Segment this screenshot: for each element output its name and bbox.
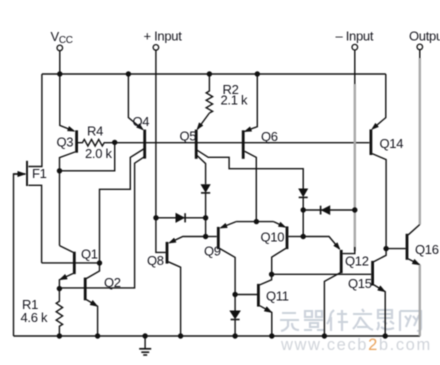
node rail / diode C xyxy=(232,333,237,338)
watermark xyxy=(280,309,432,354)
node Q14 collector / Q15 collector / Q16 base xyxy=(383,246,388,251)
wire Q16 emitter gray xyxy=(419,265,421,336)
transistor Q8 xyxy=(167,237,206,337)
terminal VCC xyxy=(57,45,63,51)
wire left column xyxy=(205,193,207,237)
svg-text:Q5: Q5 xyxy=(180,129,197,144)
wire Q11 base column and diode C xyxy=(234,295,236,311)
transistor Q5 xyxy=(196,113,303,189)
transistor Q2 xyxy=(85,263,99,336)
resistor R4 xyxy=(78,139,115,146)
transistor Q16 xyxy=(407,225,420,265)
node VCC bus / R2 xyxy=(207,71,212,76)
wire Q16 base xyxy=(386,248,406,250)
svg-text:Q14: Q14 xyxy=(380,136,404,151)
wire F1 gate line xyxy=(14,174,26,336)
diode A xyxy=(176,213,185,222)
diode B xyxy=(321,206,330,215)
ground xyxy=(139,336,151,355)
transistor Q4 xyxy=(60,74,146,288)
transistor Q14 xyxy=(371,74,386,249)
wire diode C to rail xyxy=(234,320,236,337)
svg-text:Q16: Q16 xyxy=(415,242,439,257)
svg-text:Q3: Q3 xyxy=(57,135,74,150)
svg-text:+ Input: + Input xyxy=(144,29,183,44)
svg-text:Q10: Q10 xyxy=(261,230,285,245)
svg-text:Q15: Q15 xyxy=(348,276,372,291)
svg-text:Q4: Q4 xyxy=(133,114,150,129)
diode C xyxy=(230,311,240,320)
svg-text:Q1: Q1 xyxy=(81,246,98,261)
transistor Q6 xyxy=(243,74,257,222)
transistor Q11 xyxy=(235,274,272,336)
node VCC bus / Q4 emitter xyxy=(126,71,131,76)
svg-text:2.0 k: 2.0 k xyxy=(85,146,112,161)
node Q1 base / Q2 collector xyxy=(97,260,102,265)
node rail / R1 xyxy=(57,333,62,338)
transistor Q12 xyxy=(303,237,342,337)
node Q10 collector / Q11 collector / Q15 base xyxy=(269,272,274,277)
wire -Input to Q12 base xyxy=(354,50,356,84)
wire Q15 base line xyxy=(272,273,372,275)
terminal +Input xyxy=(153,45,159,51)
transistor Q9 xyxy=(218,222,236,295)
node -Input / diode B xyxy=(352,207,357,212)
node X R4 right xyxy=(112,140,117,145)
wire Output line xyxy=(419,50,421,58)
wire top VCC bus xyxy=(42,73,386,75)
svg-text:R4: R4 xyxy=(87,124,103,139)
wire bottom rail xyxy=(14,335,421,337)
wire right column xyxy=(302,197,304,236)
node +Input / diode A xyxy=(153,215,158,220)
terminal -Input xyxy=(352,44,358,50)
wire left rail to F1 drain xyxy=(28,74,42,167)
node rail / Q15 emitter xyxy=(383,333,388,338)
wire Q3 collector to Q1 collector column xyxy=(59,171,61,246)
node Q3 collector xyxy=(57,168,62,173)
JFET F1 xyxy=(14,161,28,186)
transistor Q1 xyxy=(59,246,74,289)
transistor Q15 xyxy=(373,249,387,336)
wire R4 loop xyxy=(60,142,115,170)
svg-text:Q12: Q12 xyxy=(345,253,369,268)
wire VCC stub xyxy=(59,51,61,74)
wire +Input line to Q8 base xyxy=(156,50,166,252)
node left column / diode A xyxy=(203,215,208,220)
wire Q1 base line xyxy=(42,262,100,264)
svg-text:Q6: Q6 xyxy=(261,129,278,144)
svg-text:2.1 k: 2.1 k xyxy=(221,93,248,108)
transistor Q10 xyxy=(272,222,287,275)
node VCC bus / Q6 emitter xyxy=(255,71,260,76)
terminal Output xyxy=(417,44,423,50)
svg-text:4.6 k: 4.6 k xyxy=(21,310,48,325)
node octagon top / Q6 collector xyxy=(254,219,259,224)
diode D1 xyxy=(201,185,210,193)
wire Q10 base xyxy=(289,236,304,238)
node Q8 emitter / Q9 base xyxy=(203,234,208,239)
wire Q9 base xyxy=(206,236,217,238)
node rail / Q2 emitter xyxy=(95,333,100,338)
node rail / Q8 collector xyxy=(178,333,183,338)
node rail / Q11 emitter xyxy=(269,333,274,338)
svg-text:– Input: – Input xyxy=(336,29,374,44)
wire octagon emitter arms xyxy=(236,221,274,223)
svg-text:Output: Output xyxy=(409,29,440,44)
svg-text:F1: F1 xyxy=(32,166,47,181)
svg-text:Q9: Q9 xyxy=(204,244,221,259)
resistor R2 xyxy=(206,74,212,113)
wire diode B line xyxy=(303,209,355,211)
svg-text:Q8: Q8 xyxy=(147,253,164,268)
diode D2 xyxy=(299,189,308,198)
wire F1 source to Q1 base rail xyxy=(28,185,41,263)
node VCC bus / Q3 emitter xyxy=(57,71,62,76)
node Q10 base / Q12 emitter xyxy=(301,234,306,239)
node Q11 base / diode C xyxy=(232,292,237,297)
node Q1 emitter / Q2 base / R1 xyxy=(57,286,62,291)
wire common base line xyxy=(115,142,370,144)
svg-text:Q2: Q2 xyxy=(104,275,121,290)
node rail / Q12 collector xyxy=(322,333,327,338)
resistor R1 xyxy=(56,289,62,336)
node rail / ground xyxy=(142,333,147,338)
transistor Q3 xyxy=(60,74,77,171)
svg-text:Q11: Q11 xyxy=(266,289,289,304)
wire diode A line xyxy=(156,217,206,219)
svg-text:www.cecb2b.com: www.cecb2b.com xyxy=(280,336,432,354)
node right column / diode B xyxy=(301,207,306,212)
